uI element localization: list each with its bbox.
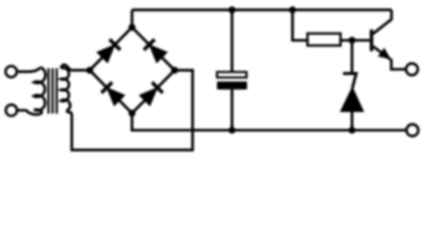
node capacitor bottom junction [229,127,236,134]
wire bridge top vertex to positive rail [131,10,134,27]
diode D3 (bridge lower-left) [107,88,124,105]
node zener bottom junction [349,127,356,134]
node resistor top junction [289,6,296,13]
input terminal J1 (top left) [6,66,17,77]
wire rail down to capacitor [231,10,234,72]
transformer T1 core [49,68,57,113]
transistor Q1 base bar [370,30,373,52]
bridge rectifier diamond wires [90,27,175,70]
diode D4 (bridge lower-right) [140,88,157,105]
wire J2 to primary [17,110,41,115]
wire node B down to zener [351,40,354,73]
wire secondary bottom, down and around to bridge right vertex [66,70,192,150]
node bridge bottom vertex [129,110,136,117]
node bridge top vertex [129,24,136,31]
capacitor C1 top plate [217,72,247,78]
resistor R1 [308,34,341,46]
wire capacitor to bottom rail [231,90,234,131]
wire zener to bottom rail [351,111,354,131]
node bridge right vertex [171,67,178,74]
node capacitor top junction [229,6,236,13]
transformer T1 primary winding [34,67,45,110]
output terminal J3 (top right) [406,63,418,75]
node bridge left vertex [86,67,93,74]
transistor Q1 emitter [373,46,406,69]
wire secondary top to bridge left vertex [61,65,87,71]
wire rail down to resistor R1 [293,10,308,40]
wire positive top rail [132,9,392,12]
zener diode ZD1 triangle [341,88,363,112]
transformer T1 secondary winding [61,68,70,111]
capacitor C1 bottom plate [217,82,247,90]
transistor Q1 emitter arrow [379,49,390,59]
zener diode ZD1 cathode bar [343,74,356,89]
diode D2 (bridge upper-right) [150,45,167,62]
wire resistor to base node [341,39,370,42]
diode D1 (bridge upper-left) [97,45,114,62]
transistor Q1 collector [373,10,392,34]
input terminal J2 (bottom left) [6,105,17,116]
wire J1 to primary [17,67,40,71]
wire bridge bottom vertex to negative rail [132,113,407,130]
output terminal J4 (bottom right) [407,124,419,136]
node B (resistor / zener / base) [349,37,356,44]
